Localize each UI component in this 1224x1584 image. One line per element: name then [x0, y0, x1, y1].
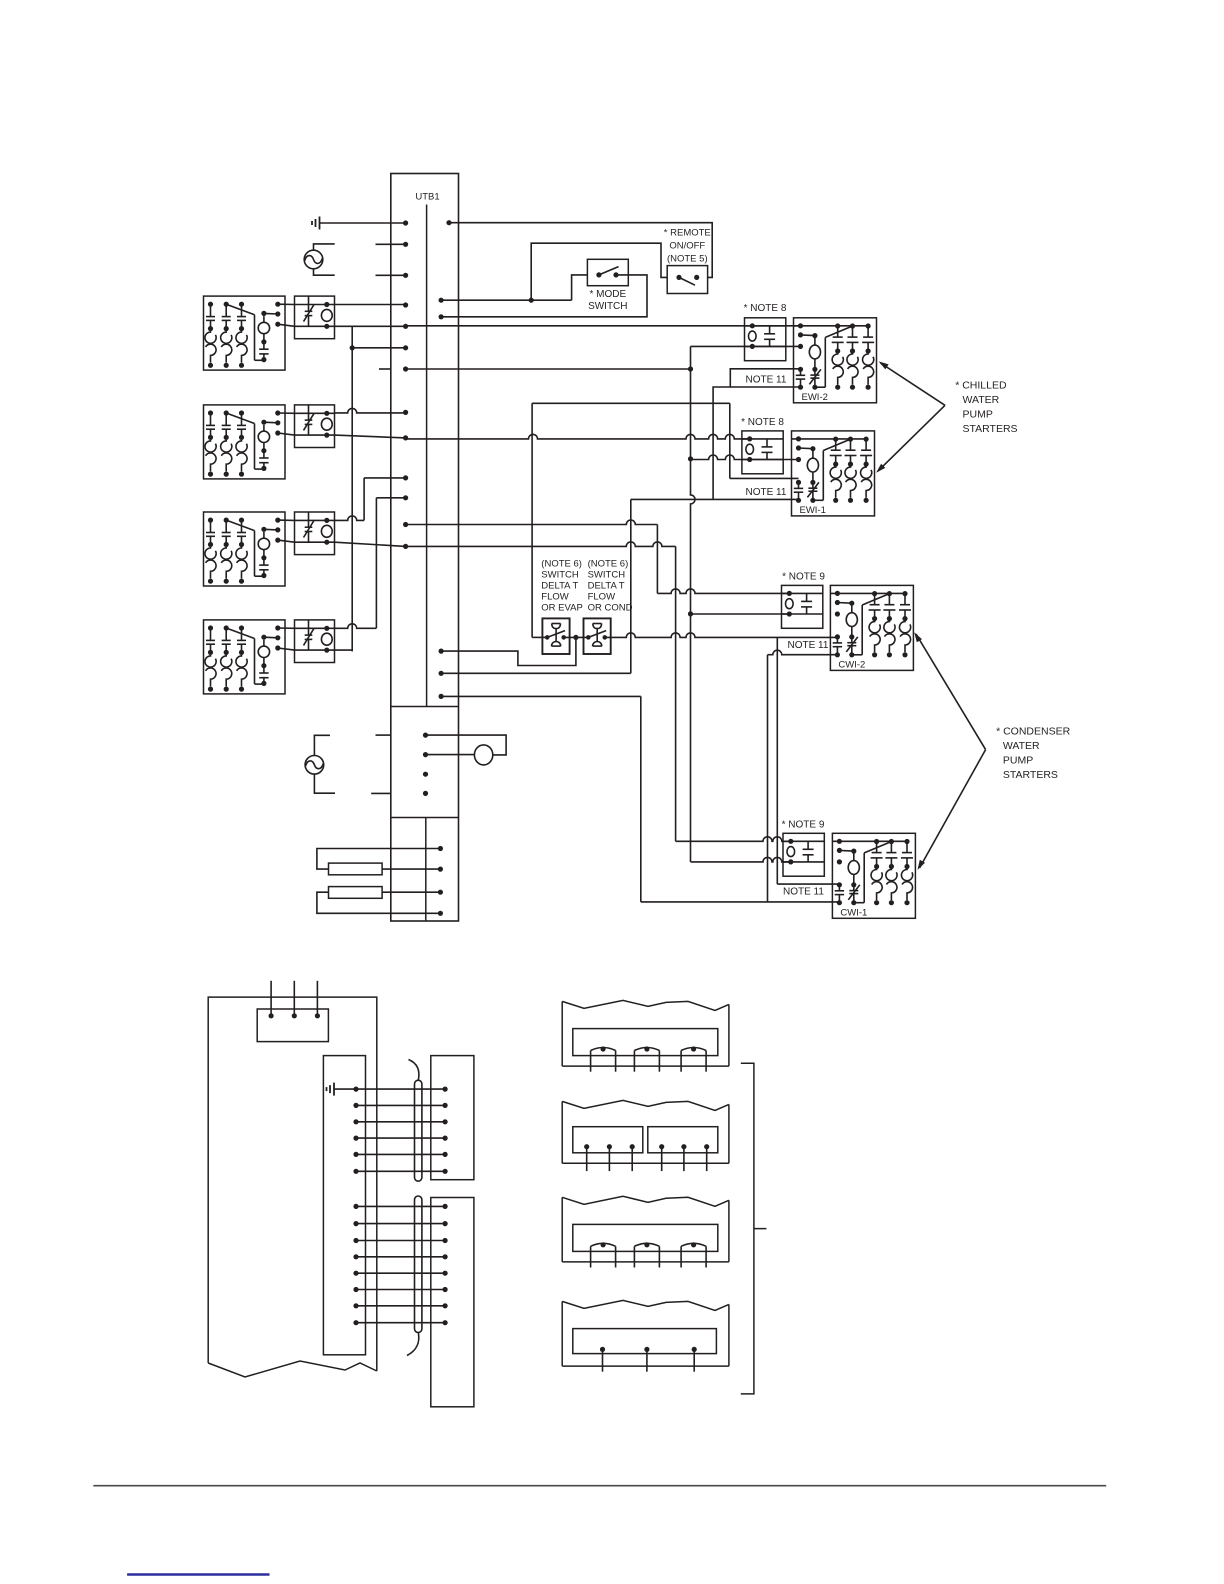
- wire junction to UTB1 row6: [352, 347, 405, 349]
- svg-text:* MODE: * MODE: [589, 289, 626, 300]
- starter panel B panel (torn top): [562, 1100, 729, 1110]
- EWI-2 pump starter box: [794, 318, 877, 403]
- wire row5 to NOTE8a / EWI-2 coil: [406, 325, 801, 327]
- wire NOTE11 loop EWI-2: [713, 369, 800, 500]
- ground (chassis, top left): [319, 217, 321, 230]
- UTB1 inner divider line (bottom section): [425, 818, 427, 922]
- remote switch throw: [694, 275, 699, 280]
- wire bulb to sect2 row2: [426, 754, 475, 756]
- svg-text:FLOW: FLOW: [541, 592, 568, 603]
- wire flow switch mid tap to inner dot row651: [441, 637, 576, 665]
- mode switch pole: [596, 272, 601, 277]
- svg-text:ON/OFF: ON/OFF: [669, 241, 705, 252]
- power pins into module: [270, 981, 272, 1016]
- svg-text:SWITCH: SWITCH: [588, 570, 626, 581]
- relay K-NOTE8b interlock relay box: [742, 431, 783, 474]
- resistor R1: [329, 863, 383, 875]
- resistor R2: [329, 887, 383, 899]
- mode switch blade: [599, 267, 619, 275]
- CT/pilot T4 current transformer / pilot box: [295, 620, 335, 663]
- wire V1 bottom to NOTE9b bottom: [691, 857, 791, 862]
- svg-text:* NOTE 9: * NOTE 9: [782, 820, 825, 831]
- junction on row6 wire: [350, 345, 355, 350]
- svg-text:CWI-2: CWI-2: [838, 659, 865, 670]
- cable tail 2: [407, 1332, 419, 1356]
- wire stub sect2 row4: [371, 792, 391, 794]
- footer horizontal rule: [93, 1485, 1106, 1487]
- wire T2 top to UTB1 row8 (hops branch): [335, 408, 406, 413]
- svg-text:UTB1: UTB1: [415, 192, 439, 203]
- wire T4 top to UTB1 row11: [335, 624, 377, 629]
- CT/pilot T3 current transformer / pilot box: [295, 512, 335, 555]
- svg-text:WATER: WATER: [1003, 740, 1040, 752]
- connector J2: [431, 1198, 474, 1407]
- UTB1 right terminal dot: [446, 220, 451, 225]
- svg-text:(NOTE 5): (NOTE 5): [667, 254, 708, 265]
- wire mode feed upper: [531, 243, 667, 300]
- wire inner row696 down to CWI-1 return: [441, 695, 641, 697]
- svg-text:* CHILLED: * CHILLED: [955, 380, 1007, 392]
- UTB1 section-2 terminal dots: [423, 733, 428, 738]
- svg-text:NOTE 11: NOTE 11: [746, 487, 787, 498]
- wire down to EWI-1 NOTE11 loop: [729, 403, 731, 478]
- wire AC2 top lead: [314, 735, 330, 755]
- wire NOTE8a bottom / common V1 vertical: [691, 345, 801, 347]
- wire NOTE11 loop EWI-1 top: [730, 477, 799, 479]
- wire UTB1 right dot to remote on/off loop: [449, 223, 712, 278]
- svg-text:* NOTE 9: * NOTE 9: [782, 572, 825, 583]
- UTB1 section divider 2: [391, 817, 459, 819]
- wire mode switch return to inner row317: [441, 275, 647, 317]
- svg-text:* NOTE 8: * NOTE 8: [741, 417, 784, 428]
- wire CWI-1 cap bottom return: [641, 901, 840, 903]
- svg-text:(NOTE 6): (NOTE 6): [541, 559, 582, 570]
- remote switch blade: [679, 277, 695, 285]
- svg-text:OR EVAP: OR EVAP: [541, 603, 583, 614]
- wire between flow switches: [564, 636, 589, 638]
- wire row13 to NOTE9b top via V2: [406, 542, 676, 547]
- svg-text:NOTE 11: NOTE 11: [746, 375, 787, 386]
- wire inner row300 to mode switch: [441, 275, 587, 300]
- wire starter M3 exits to CT box: [278, 519, 295, 521]
- S6 evap flow switch box: [542, 618, 569, 654]
- starter panel A panel (torn top): [562, 1000, 729, 1010]
- wire T1 bottom to UTB1 row5: [335, 325, 406, 327]
- svg-text:CWI-1: CWI-1: [840, 907, 867, 918]
- wire starter M1 exits to CT box: [278, 303, 295, 305]
- junction mode feed: [529, 298, 534, 303]
- EWI-1 pump starter box: [792, 431, 875, 516]
- svg-text:WATER: WATER: [963, 394, 1000, 406]
- torn edge wavy bottom: [208, 1361, 377, 1377]
- grouping bracket: [741, 1063, 767, 1394]
- wire resistor R1 loop top: [317, 849, 441, 870]
- cable bundle loop 1: [415, 1080, 422, 1181]
- connector J1: [431, 1056, 474, 1180]
- UTB1 section-3 terminal dots: [438, 846, 443, 851]
- wire common vertical branch x=352.2: [351, 326, 353, 651]
- cable bundle loop 2: [415, 1196, 422, 1333]
- starter M3 compressor starter box: [204, 512, 286, 586]
- svg-text:DELTA T: DELTA T: [541, 581, 578, 592]
- svg-text:EWI-1: EWI-1: [800, 505, 826, 516]
- wire starter M4 exits to CT box: [278, 627, 295, 629]
- relay K-NOTE8a interlock relay box: [745, 318, 786, 361]
- UTB1 inner divider line (top section): [426, 205, 428, 707]
- svg-text:STARTERS: STARTERS: [1003, 769, 1058, 781]
- wire common vertical V1: [691, 346, 696, 862]
- wire R2 to sect3 row3: [382, 891, 440, 893]
- starter M1 compressor starter box: [204, 296, 286, 370]
- svg-text:(NOTE 6): (NOTE 6): [588, 559, 629, 570]
- svg-text:DELTA T: DELTA T: [588, 581, 625, 592]
- callout arrows chilled water: [881, 363, 946, 405]
- wire T3 top to UTB1 row10: [335, 516, 365, 521]
- wire T4 bottom to common vertical: [335, 650, 353, 651]
- UTB1 section divider 1: [391, 706, 459, 708]
- UTB1 inner terminal dots: [439, 298, 444, 303]
- relay K-NOTE9a interlock relay box: [782, 585, 823, 628]
- svg-text:SWITCH: SWITCH: [541, 570, 579, 581]
- wire sect2 loop to sensor bulb: [426, 735, 507, 755]
- wire row9 to NOTE8b: [406, 434, 749, 439]
- wire starter M2 exits to CT box: [278, 412, 295, 414]
- svg-text:OR COND: OR COND: [588, 603, 633, 614]
- svg-text:PUMP: PUMP: [963, 409, 993, 421]
- wire resistor R2 loop bottom: [317, 892, 441, 913]
- wire T3 bottom to UTB1 row13: [335, 542, 406, 546]
- CWI-2 pump starter box: [830, 585, 913, 670]
- svg-text:NOTE 11: NOTE 11: [788, 640, 829, 651]
- CT/pilot T2 current transformer / pilot box: [295, 405, 335, 448]
- footer blue link line: [127, 1573, 269, 1575]
- wire NOTE11 loop EWI-1 bottom (to inner dot): [631, 498, 799, 500]
- wire flow switch output to CWI-2: [605, 633, 838, 638]
- wire CWI-2 cap bottom return: [768, 650, 838, 655]
- ribbon wires group 2: [356, 1205, 445, 1207]
- terminal block UTB1 outline: [391, 174, 459, 922]
- AC source S1 (control power): [304, 250, 323, 269]
- svg-text:PUMP: PUMP: [1003, 755, 1033, 767]
- sensor bulb: [474, 745, 492, 765]
- wire AC2 bottom lead: [314, 774, 335, 793]
- wire ground to UTB1 row1: [320, 222, 406, 224]
- wire V1 tap to NOTE9a bottom: [691, 613, 790, 615]
- wire stub row3: [376, 274, 406, 276]
- UTB1 left terminal dots: [403, 220, 408, 225]
- cable tail 1: [409, 1060, 419, 1081]
- wire T1 top to UTB1 row4: [335, 304, 406, 306]
- svg-text:* CONDENSER: * CONDENSER: [996, 726, 1071, 738]
- svg-text:SWITCH: SWITCH: [588, 301, 627, 312]
- starter M2 compressor starter box: [204, 405, 286, 479]
- wire delta-T output branch down to CWI-1 NOTE11 top: [776, 637, 778, 884]
- svg-text:STARTERS: STARTERS: [963, 423, 1018, 435]
- S7 cond flow switch box: [584, 618, 611, 654]
- starter panel C panel (torn top): [562, 1196, 729, 1206]
- wire stub sect2 row1: [376, 734, 391, 736]
- remote switch pole: [676, 275, 681, 280]
- CT/pilot T1 current transformer / pilot box: [295, 296, 335, 339]
- svg-text:* REMOTE: * REMOTE: [664, 228, 711, 239]
- mode switch throw: [613, 272, 618, 277]
- relay K-NOTE9b interlock relay box: [783, 833, 824, 876]
- wire AC1 bottom lead: [314, 269, 335, 275]
- ground (module): [333, 1083, 335, 1096]
- controller module outer box (torn bottom): [208, 997, 377, 1371]
- svg-text:NOTE 11: NOTE 11: [783, 887, 824, 898]
- wire stub row7 (left): [379, 368, 391, 370]
- junction between flow switches: [573, 635, 578, 640]
- wire mid horizontal y403: [532, 402, 730, 404]
- wire T2 bottom to UTB1 row9: [335, 435, 406, 438]
- power terminal block: [257, 1009, 328, 1042]
- starter M4 compressor starter box: [204, 620, 286, 694]
- CWI-1 pump starter box: [832, 833, 915, 918]
- wire stub row2: [376, 243, 406, 245]
- ribbon wires group 1: [356, 1088, 445, 1090]
- switch MODE box: [587, 259, 628, 285]
- AC source S2: [305, 756, 324, 775]
- svg-text:* NOTE 8: * NOTE 8: [744, 303, 787, 314]
- svg-text:EWI-2: EWI-2: [802, 392, 828, 403]
- wire NOTE8b bottom to V1: [691, 455, 799, 460]
- wire delta-T left feed: [531, 403, 533, 637]
- svg-text:FLOW: FLOW: [588, 592, 615, 603]
- wire row12 to NOTE9a top: [406, 520, 658, 525]
- wire R1 to sect3 row2: [382, 868, 440, 870]
- callout arrows condenser water: [916, 634, 986, 750]
- switch REMOTE ON/OFF box: [667, 266, 707, 294]
- controller board edge connector: [323, 1056, 365, 1355]
- wire AC1 top lead: [314, 244, 335, 250]
- wire row7 to V1: [406, 368, 691, 370]
- starter panel D panel (torn top): [562, 1300, 729, 1310]
